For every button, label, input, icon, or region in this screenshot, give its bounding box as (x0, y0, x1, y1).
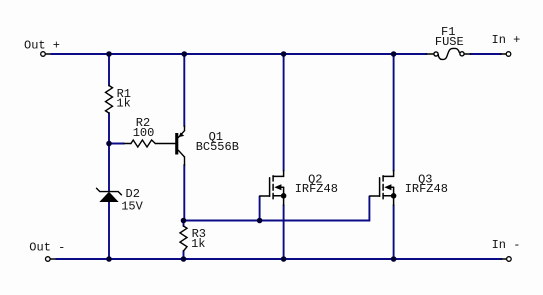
svg-text:IRFZ48: IRFZ48 (405, 182, 448, 196)
junction R2 node (106, 141, 112, 147)
wire bottom rail (50, 258, 56, 260)
transistor Q1 (175, 126, 184, 165)
wire gate bus (184, 197, 370, 221)
wire R1 to R2 node (108, 113, 110, 191)
svg-text:BC556B: BC556B (196, 140, 239, 154)
resistor R1 (106, 86, 113, 114)
wire Q1 collector to gate node (183, 165, 185, 221)
wire Q1 emitter to top rail (183, 54, 185, 126)
wire D2 to bottom rail (108, 202, 110, 260)
terminal In + (506, 52, 511, 57)
svg-text:FUSE: FUSE (435, 35, 464, 49)
zener diode D2 (97, 188, 122, 201)
wire Q3 drain to top rail (393, 54, 395, 171)
junction top rail at Q1 emitter (182, 51, 188, 57)
terminal Out - (46, 257, 51, 262)
svg-text:IRFZ48: IRFZ48 (295, 182, 338, 196)
transistor Q2 (MOSFET) (260, 171, 287, 206)
terminal Out + (41, 52, 46, 57)
svg-text:In -: In - (492, 238, 521, 252)
wire top rail Out+ to fuse (46, 53, 52, 55)
svg-text:1k: 1k (116, 97, 130, 111)
wire Q2 source to bottom rail (283, 205, 285, 259)
wire Q3 source to bottom rail (393, 205, 395, 259)
wire top rail fuse to In+ (470, 53, 501, 55)
junction bottom rail at R3 (181, 256, 187, 262)
resistor R3 (180, 226, 187, 251)
junction bottom rail at Q3 source (391, 256, 397, 262)
junction gate bus at Q2 (257, 218, 263, 224)
wire R3 top (183, 221, 185, 227)
terminal In - (507, 257, 512, 262)
svg-text:15V: 15V (121, 199, 143, 213)
svg-text:1k: 1k (191, 237, 205, 251)
junction bottom rail at Q2 source (281, 256, 287, 262)
resistor R2 (131, 140, 155, 147)
svg-text:Out -: Out - (29, 240, 65, 254)
wire R3 bottom (183, 251, 185, 259)
wire left branch top (rail to R1) (108, 54, 110, 86)
svg-text:Out +: Out + (24, 38, 60, 52)
junction top rail at R1 (106, 51, 112, 57)
junction bottom rail at D2 (106, 256, 112, 262)
wire R2 node stub (109, 143, 124, 145)
wire Q2 drain to top rail (283, 54, 285, 171)
svg-text:In +: In + (492, 33, 521, 47)
junction top rail at Q2 drain (281, 51, 287, 57)
svg-text:100: 100 (133, 126, 155, 140)
junction top rail at Q3 drain (391, 51, 397, 57)
transistor Q3 (MOSFET) (370, 171, 397, 206)
wire Q2 gate tap (259, 197, 261, 221)
fuse F1 (427, 48, 471, 59)
junction gate node at R3 (181, 218, 187, 224)
